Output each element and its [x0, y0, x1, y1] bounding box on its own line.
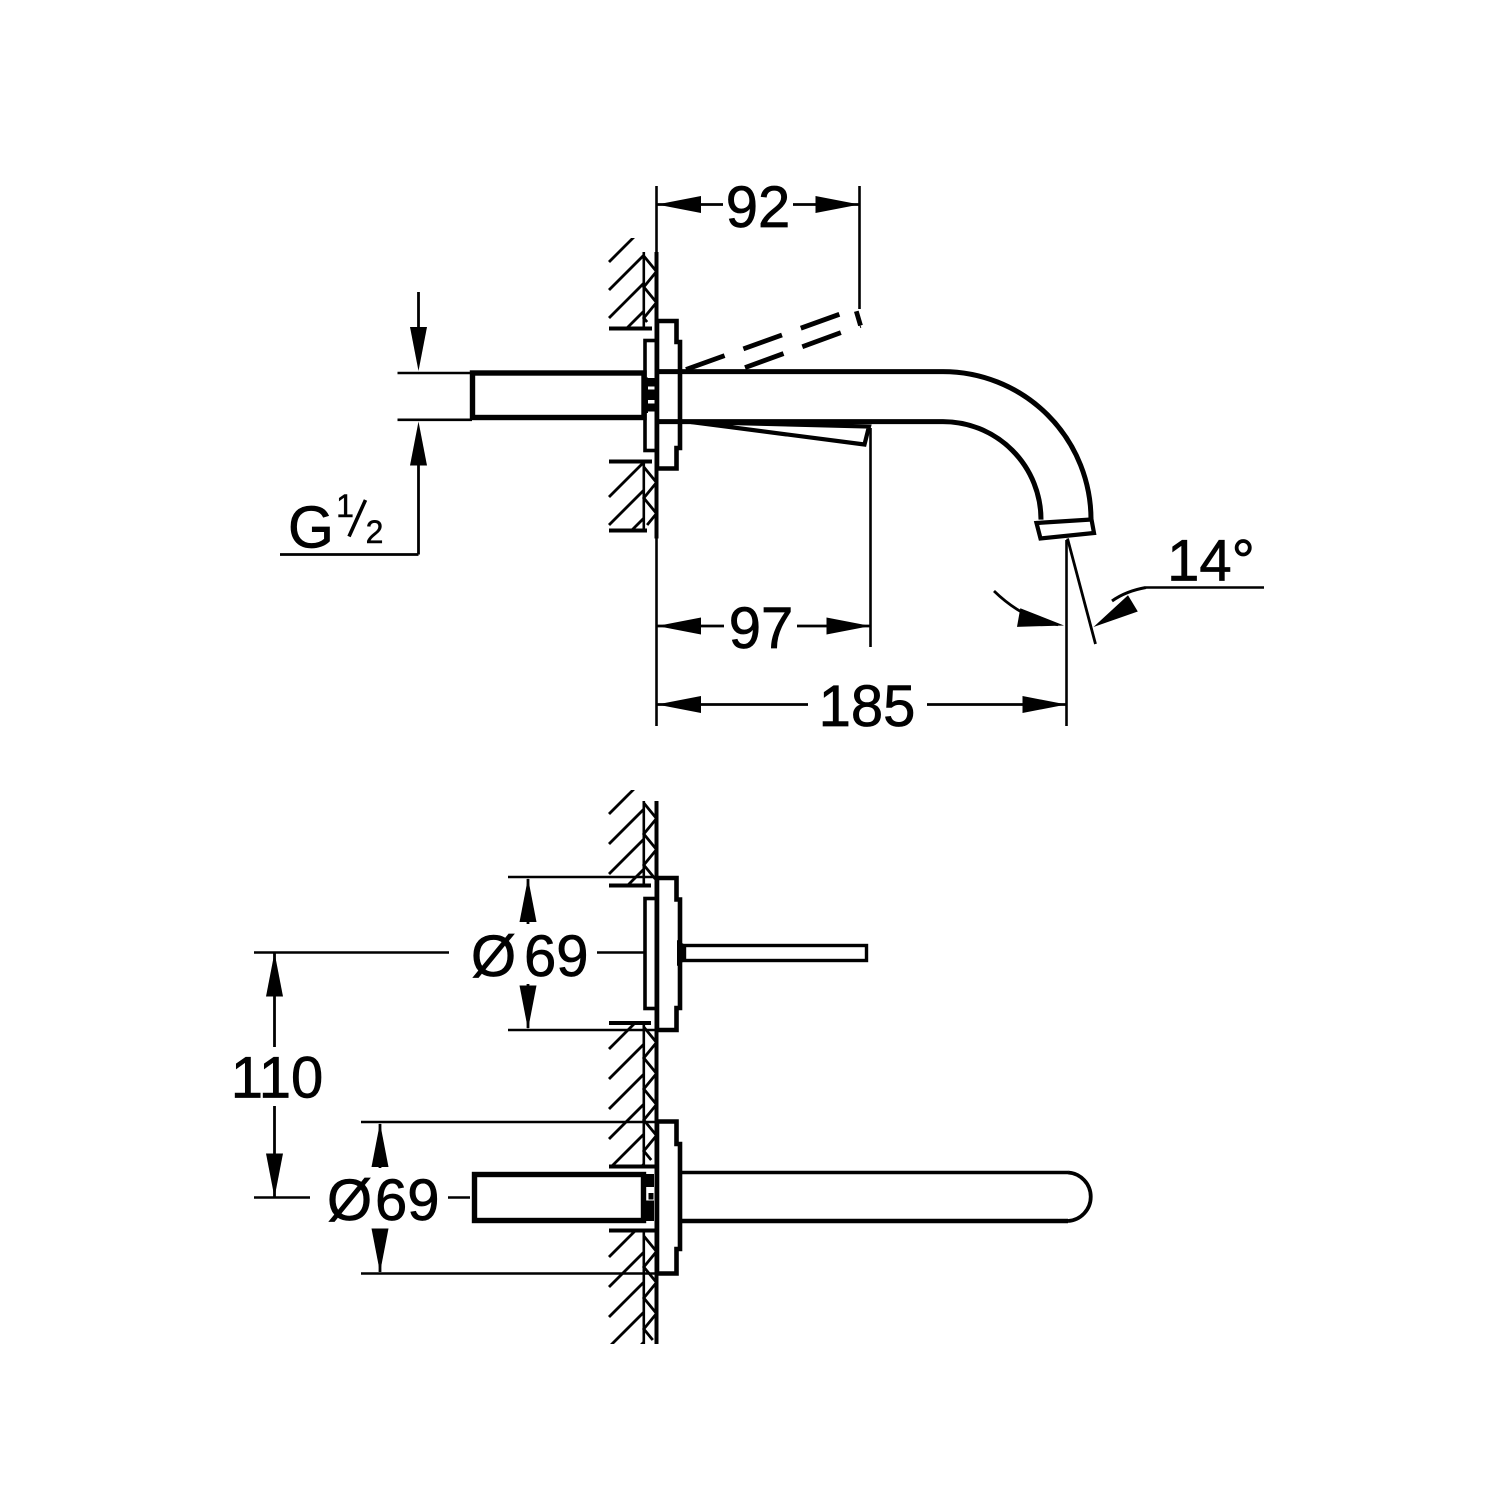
- dimension D69 (handle plate) line and arrows: [527, 879, 530, 924]
- G 1/2 leader line: [280, 553, 419, 556]
- dimension D69 (spout plate) line and arrows: [379, 1124, 382, 1168]
- dimension D69 (handle plate) extension lines: [508, 876, 655, 879]
- wall hatching upper band (top view): [609, 227, 644, 346]
- 14 deg leader line with arrow: [1146, 586, 1264, 589]
- svg-text:69: 69: [375, 1168, 440, 1233]
- mounting flange behind wall (top view): [645, 341, 657, 451]
- wall surface line (bottom view): [655, 801, 659, 1344]
- dimension 92 line and arrows: [657, 203, 723, 206]
- dimension 185 extension line right: [1065, 540, 1068, 726]
- svg-text:G: G: [288, 495, 334, 561]
- svg-text:14°: 14°: [1167, 529, 1255, 594]
- dimension 92 extension line right: [858, 186, 861, 309]
- dimension 185 line and arrows: [657, 703, 808, 706]
- dimension 97 extension line right: [869, 428, 872, 647]
- svg-text:69: 69: [524, 924, 589, 989]
- svg-text:Ø: Ø: [327, 1168, 372, 1233]
- supply pipe body (top view): [473, 373, 645, 418]
- wall surface line (top view): [655, 252, 659, 539]
- svg-text:92: 92: [726, 175, 791, 240]
- escutcheon spout wall plate (bottom view): [657, 1122, 680, 1274]
- spout tube top line (top view): [658, 369, 943, 374]
- dimension D69 (spout plate) extension lines: [361, 1121, 655, 1124]
- wall plaster line (top view): [642, 252, 645, 328]
- svg-text:1: 1: [336, 488, 354, 524]
- dimension 92 extension line left: [655, 186, 658, 252]
- dimension 97 line and arrows: [657, 625, 724, 628]
- spout tube top line (bottom view): [680, 1171, 1068, 1174]
- spout outer bend arc: [943, 372, 1091, 520]
- lever handle solid, down position: [691, 422, 869, 445]
- G 1/2 dimension arrows: [417, 292, 420, 334]
- svg-text:110: 110: [231, 1046, 323, 1111]
- svg-text:Ø: Ø: [471, 924, 516, 989]
- wall cut cap lines (bottom view): [609, 884, 651, 888]
- mounting flange behind wall (handle plate): [645, 899, 657, 1009]
- svg-text:97: 97: [729, 596, 794, 661]
- escutcheon handle wall plate (bottom view): [657, 878, 680, 1030]
- thread detail (bottom view): [644, 1174, 655, 1187]
- svg-text:2: 2: [366, 514, 384, 550]
- 14 deg reference slant line: [1068, 539, 1096, 645]
- spout tube bottom line (bottom view): [680, 1219, 1068, 1224]
- dimension 110 extension lines: [254, 951, 449, 954]
- lever bar (bottom view): [685, 946, 867, 961]
- lever handle dashed, raised position: [686, 309, 861, 370]
- supply pipe thin walls (top view): [398, 372, 473, 375]
- 14 deg arc with arrow: [994, 591, 1058, 625]
- spout aerator end cap: [1037, 520, 1095, 539]
- spout tube rounded end cap: [1068, 1173, 1091, 1222]
- lever hub (bottom view): [677, 940, 685, 966]
- spout tube bottom line (top view): [658, 419, 943, 424]
- wall plaster line (bottom view): [642, 801, 645, 884]
- escutcheon wall plate (top view): [657, 321, 680, 469]
- spout inner bend arc: [943, 422, 1041, 520]
- svg-text:185: 185: [819, 674, 916, 739]
- dimension 110 line and arrows: [273, 953, 276, 1047]
- wall cut cap lines (top view): [609, 327, 652, 331]
- dimension 185 extension line left: [655, 538, 658, 726]
- thread detail (top view): [643, 378, 648, 414]
- supply pipe body (bottom view): [475, 1175, 644, 1221]
